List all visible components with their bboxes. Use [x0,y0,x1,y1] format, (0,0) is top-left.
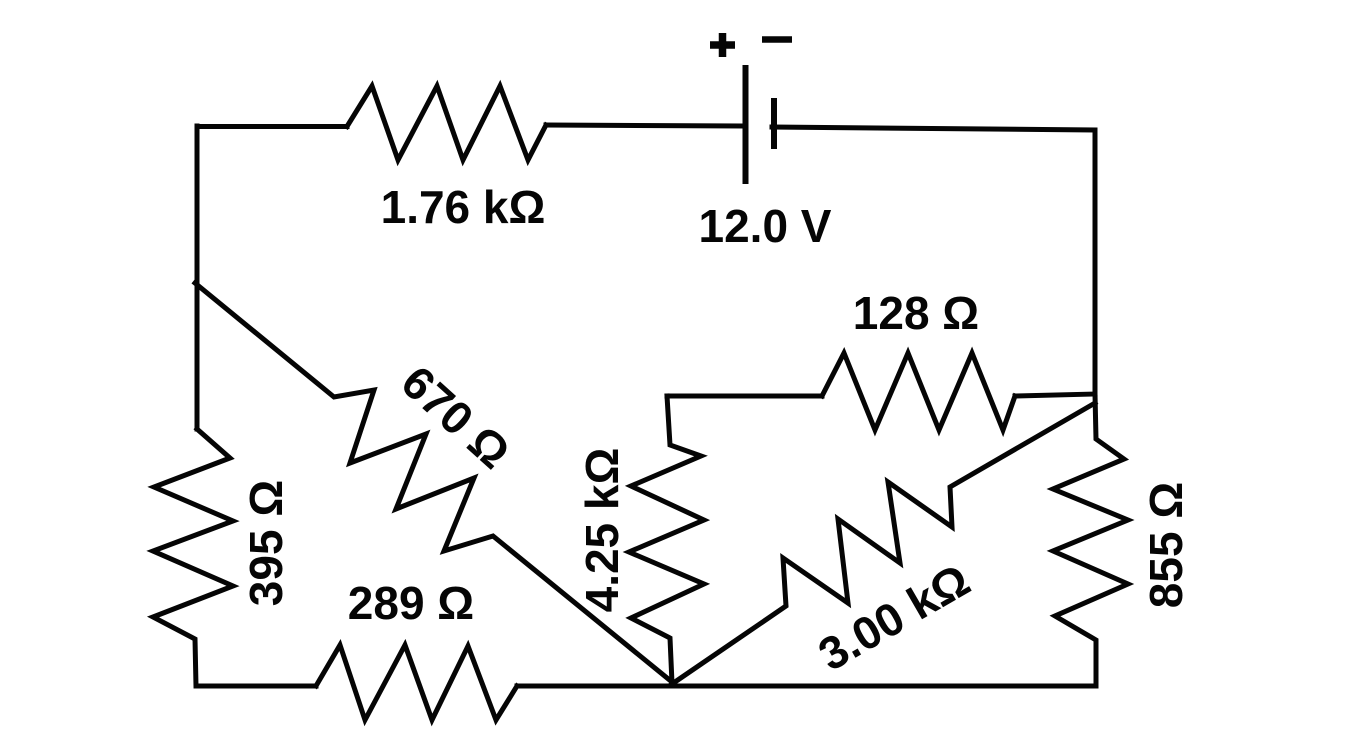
resistor 128 ohm (horizontal zigzag) [822,353,1015,430]
wire 128 ohm right lead [1015,394,1095,396]
resistor 395 ohm (left vertical zigzag) [153,429,233,686]
svg-text:395 Ω: 395 Ω [240,480,292,606]
battery plus sign [710,33,735,57]
resistor 4.25 kohm (middle vertical zigzag) [629,396,704,683]
svg-text:12.0 V: 12.0 V [699,200,832,252]
svg-text:1.76 kΩ: 1.76 kΩ [381,181,546,233]
svg-text:4.25 kΩ: 4.25 kΩ [576,448,628,613]
resistor 3.00 kohm (diagonal sawtooth) [672,403,1095,684]
wire top middle to battery [546,125,741,126]
resistor 855 ohm (right vertical zigzag) [1053,394,1128,686]
svg-text:128 Ω: 128 Ω [853,287,979,339]
resistor 1.76 kohm (top zigzag) [347,86,546,160]
svg-text:289 Ω: 289 Ω [348,577,474,629]
battery 12.0 V short plate (-) [771,98,777,149]
wire bottom left [197,684,316,689]
battery minus sign [762,36,792,43]
battery 12.0 V long plate (+) [743,65,749,184]
svg-text:855 Ω: 855 Ω [1140,482,1192,608]
wire left side vertical [195,126,200,429]
wire battery to top right corner, down right side [772,127,1095,394]
wire bottom center to bottom right corner [517,684,1096,689]
resistor 289 ohm (bottom zigzag) [316,645,517,720]
resistor 670 ohm (diagonal zigzag) [195,283,672,682]
wire 128 ohm left lead [667,394,822,399]
wire top left horizontal [197,124,347,129]
svg-text:3.00 kΩ: 3.00 kΩ [810,553,979,680]
svg-text:670 Ω: 670 Ω [392,355,521,478]
